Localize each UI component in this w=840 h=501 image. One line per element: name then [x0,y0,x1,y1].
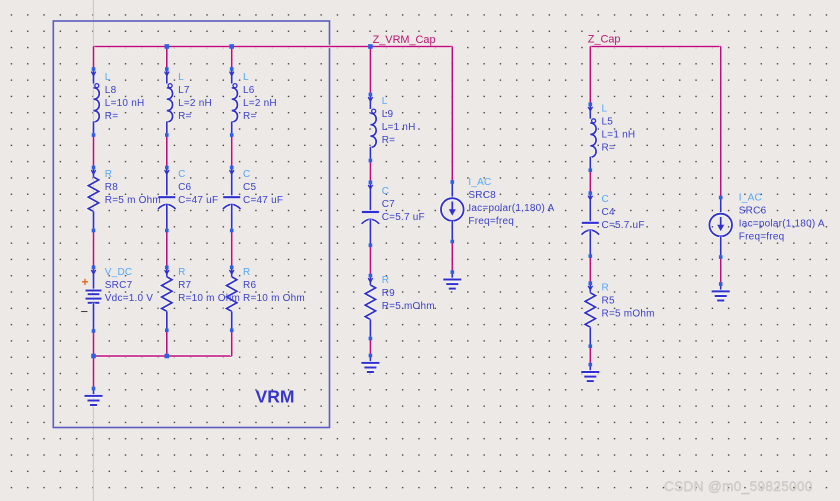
svg-text:Z_Cap: Z_Cap [588,34,621,46]
svg-text:R9: R9 [382,288,395,299]
svg-text:L6: L6 [243,85,255,96]
svg-text:V_DC: V_DC [105,267,133,278]
svg-text:R=: R= [382,135,396,146]
svg-text:Vdc=1.0 V: Vdc=1.0 V [105,293,154,304]
svg-text:L: L [105,72,111,83]
svg-text:C7: C7 [382,199,395,210]
svg-text:R=10 m Ohm: R=10 m Ohm [243,293,305,304]
svg-text:R=10 m Ohm: R=10 m Ohm [178,293,240,304]
svg-text:L=1 nH: L=1 nH [602,130,636,141]
svg-text:R=5 mOhm: R=5 mOhm [382,301,435,312]
svg-text:C: C [243,169,250,180]
svg-text:Freq=freq: Freq=freq [739,232,785,243]
svg-text:L9: L9 [382,109,394,120]
svg-text:R: R [178,267,185,278]
svg-text:C: C [382,186,389,197]
svg-text:+: + [82,275,89,289]
svg-text:R=5 m Ohm: R=5 m Ohm [105,195,161,206]
svg-text:C=5.7 uF: C=5.7 uF [602,220,645,231]
svg-text:C4: C4 [602,207,615,218]
svg-text:Iac=polar(1,180) A: Iac=polar(1,180) A [739,219,825,230]
svg-text:R: R [105,169,112,180]
svg-text:CSDN @m0_59825000: CSDN @m0_59825000 [664,479,813,494]
svg-text:L=10 nH: L=10 nH [105,98,145,109]
svg-text:L=1 nH: L=1 nH [382,122,416,133]
svg-text:Z_VRM_Cap: Z_VRM_Cap [373,34,436,46]
svg-text:R8: R8 [105,182,118,193]
svg-text:VRM: VRM [256,386,295,406]
svg-text:C: C [178,169,185,180]
svg-text:Iac=polar(1,180) A: Iac=polar(1,180) A [468,203,554,214]
svg-text:R5: R5 [602,296,615,307]
svg-text:C: C [602,194,609,205]
svg-text:L8: L8 [105,85,117,96]
svg-text:L: L [602,104,608,115]
svg-text:I_AC: I_AC [739,193,762,204]
svg-text:C6: C6 [178,182,191,193]
svg-text:L: L [243,72,249,83]
svg-text:R7: R7 [178,280,191,291]
svg-text:C5: C5 [243,182,256,193]
svg-text:R=: R= [602,143,616,154]
svg-text:L: L [382,96,388,107]
svg-text:C=47 uF: C=47 uF [178,195,218,206]
svg-text:SRC7: SRC7 [105,280,133,291]
svg-text:L5: L5 [602,117,614,128]
svg-text:L: L [178,72,184,83]
svg-text:L7: L7 [178,85,190,96]
svg-text:SRC8: SRC8 [468,190,496,201]
svg-text:R=: R= [243,111,257,122]
svg-text:SRC6: SRC6 [739,206,767,217]
svg-text:L=2 nH: L=2 nH [178,98,212,109]
svg-text:R6: R6 [243,280,256,291]
svg-text:I_AC: I_AC [468,177,491,188]
svg-text:Freq=freq: Freq=freq [468,216,514,227]
svg-text:C=5.7 uF: C=5.7 uF [382,212,425,223]
svg-text:R=: R= [105,111,119,122]
svg-text:C=47 uF: C=47 uF [243,195,283,206]
svg-text:R: R [382,275,389,286]
svg-text:R: R [243,267,250,278]
svg-text:L=2 nH: L=2 nH [243,98,277,109]
svg-text:R: R [602,283,609,294]
svg-text:R=: R= [178,111,192,122]
svg-text:R=5 mOhm: R=5 mOhm [602,309,655,320]
svg-text:−: − [81,304,89,319]
